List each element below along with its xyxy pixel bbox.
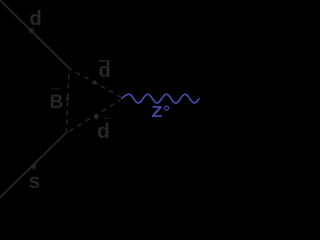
svg-text:Z: Z	[151, 103, 162, 121]
svg-text:d: d	[30, 8, 42, 30]
svg-text:B: B	[50, 92, 64, 113]
svg-text:s: s	[29, 170, 41, 193]
svg-text:d: d	[99, 60, 111, 82]
svg-text:d: d	[97, 120, 110, 143]
